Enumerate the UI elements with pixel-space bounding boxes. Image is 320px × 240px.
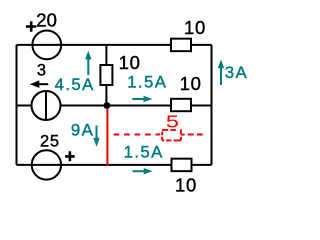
svg-text:10: 10: [184, 17, 206, 38]
svg-text:25: 25: [40, 133, 60, 151]
svg-text:10: 10: [175, 175, 197, 196]
svg-text:1.5A: 1.5A: [127, 73, 167, 92]
svg-text:9A: 9A: [71, 121, 94, 140]
svg-text:10: 10: [119, 52, 141, 73]
svg-text:10: 10: [180, 73, 202, 94]
svg-text:4.5A: 4.5A: [55, 75, 95, 94]
svg-text:3: 3: [37, 62, 46, 80]
svg-text:5: 5: [166, 112, 179, 132]
svg-text:1.5A: 1.5A: [124, 142, 164, 161]
svg-text:20: 20: [36, 10, 57, 31]
svg-text:3A: 3A: [225, 63, 248, 82]
